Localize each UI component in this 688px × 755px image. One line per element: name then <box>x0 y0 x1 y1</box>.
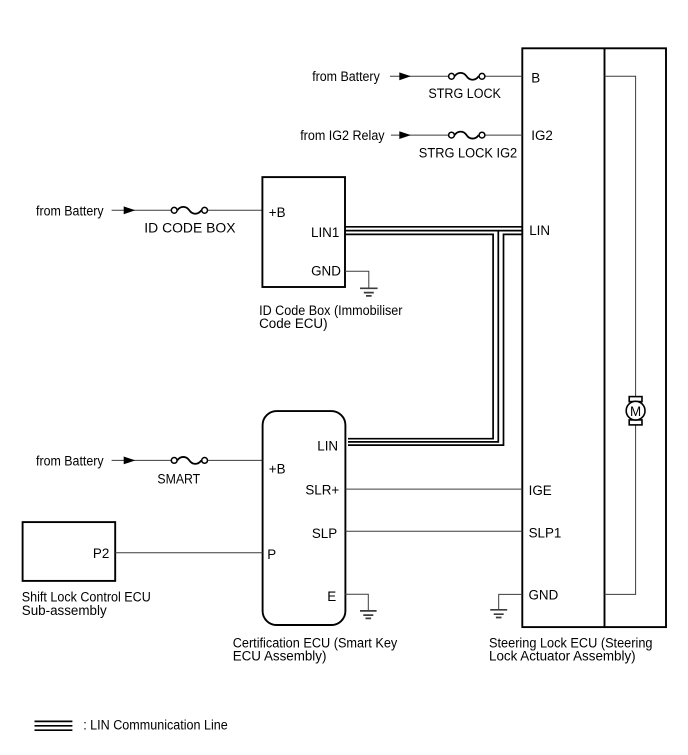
svg-text:LIN: LIN <box>529 223 550 238</box>
svg-text:GND: GND <box>529 588 559 603</box>
motor M1 top brush <box>629 397 642 402</box>
svg-text:ECU Assembly): ECU Assembly) <box>233 649 327 664</box>
svg-text:from Battery: from Battery <box>36 203 104 218</box>
wire: steering GND to ground <box>499 594 523 609</box>
motor M1 bottom brush <box>629 420 642 425</box>
ECU box: Steering Lock ECU outer rectangle <box>522 48 666 627</box>
wire: from Battery to cert +B (row 4) <box>112 459 172 461</box>
svg-text:Sub-assembly: Sub-assembly <box>22 603 107 618</box>
ECU box: Certification ECU rounded rectangle <box>263 411 346 625</box>
svg-text:STRG LOCK: STRG LOCK <box>428 86 501 101</box>
svg-text:SLP1: SLP1 <box>529 526 562 541</box>
wire: SLP to SLP1 <box>345 530 522 532</box>
arrow: from Battery row 4 <box>124 457 136 465</box>
svg-text:+B: +B <box>269 461 286 476</box>
wire: cert E to ground <box>345 594 369 610</box>
svg-text:Code ECU): Code ECU) <box>259 316 327 331</box>
arrow: from Battery row 3 <box>124 206 136 214</box>
LIN triple line: top run line 3 left + left vertical + lower top <box>345 234 493 438</box>
svg-text:+B: +B <box>269 205 286 220</box>
svg-text:SLR+: SLR+ <box>305 483 339 498</box>
arrow: from Battery row 1 <box>399 72 411 80</box>
wire: P2 to P <box>115 552 262 554</box>
wire: from IG2 Relay to IG2 pin (row 2) <box>391 134 449 136</box>
svg-text:P: P <box>267 547 276 562</box>
arrow: from IG2 Relay row 2 <box>399 131 411 139</box>
ECU box: ID Code Box <box>262 177 345 287</box>
svg-text:LIN1: LIN1 <box>311 225 339 240</box>
svg-text:STRG LOCK IG2: STRG LOCK IG2 <box>419 145 517 160</box>
wire: motor loop inside steering lock ECU <box>605 76 636 594</box>
svg-text:GND: GND <box>311 264 341 279</box>
ground symbol (ID code box) <box>360 288 378 296</box>
svg-text:from IG2 Relay: from IG2 Relay <box>300 128 385 143</box>
fuse STRG LOCK <box>455 73 479 80</box>
svg-text:from Battery: from Battery <box>312 69 380 84</box>
wire: SLR+ to IGE <box>345 488 522 490</box>
svg-text:E: E <box>327 589 336 604</box>
LIN triple line: LIN1 to LIN (top run, line 1) <box>345 226 522 228</box>
svg-text:ID CODE BOX: ID CODE BOX <box>144 220 235 235</box>
legend: LIN communication line sample <box>35 721 73 730</box>
wire: from Battery to ID Code Box +B (row 3) <box>112 209 172 211</box>
svg-text:from Battery: from Battery <box>36 454 104 469</box>
motor M1 circle with M <box>626 401 645 420</box>
svg-text:Lock Actuator Assembly): Lock Actuator Assembly) <box>489 649 636 664</box>
svg-text:LIN: LIN <box>317 439 338 454</box>
Steering Lock ECU internal divider line <box>604 48 606 627</box>
svg-text:B: B <box>531 71 540 86</box>
fuse STRG LOCK IG2 <box>455 132 479 139</box>
svg-text:IGE: IGE <box>529 483 552 498</box>
svg-text:IG2: IG2 <box>531 128 553 143</box>
ECU box: Shift Lock Control ECU <box>23 522 116 581</box>
ground symbol (steering ECU GND) <box>490 610 507 618</box>
svg-text:SLP: SLP <box>312 526 337 541</box>
svg-text:P2: P2 <box>93 546 109 561</box>
svg-text:SMART: SMART <box>157 471 200 486</box>
ground symbol (cert ECU E) <box>360 611 377 619</box>
LIN triple line: middle vertical branch to cert ECU LIN <box>348 231 498 442</box>
fuse SMART <box>177 457 201 464</box>
LIN triple line: top run line 3 right + right vertical + lower bottom <box>348 234 522 445</box>
wire: from Battery to B pin (row 1) <box>390 75 448 77</box>
LIN triple line: top run line 2 <box>345 230 522 232</box>
svg-text:: LIN Communication Line: : LIN Communication Line <box>83 717 228 732</box>
wire: ID code box GND to ground <box>345 271 369 287</box>
fuse ID CODE BOX <box>177 207 201 214</box>
svg-text:M: M <box>630 404 641 419</box>
